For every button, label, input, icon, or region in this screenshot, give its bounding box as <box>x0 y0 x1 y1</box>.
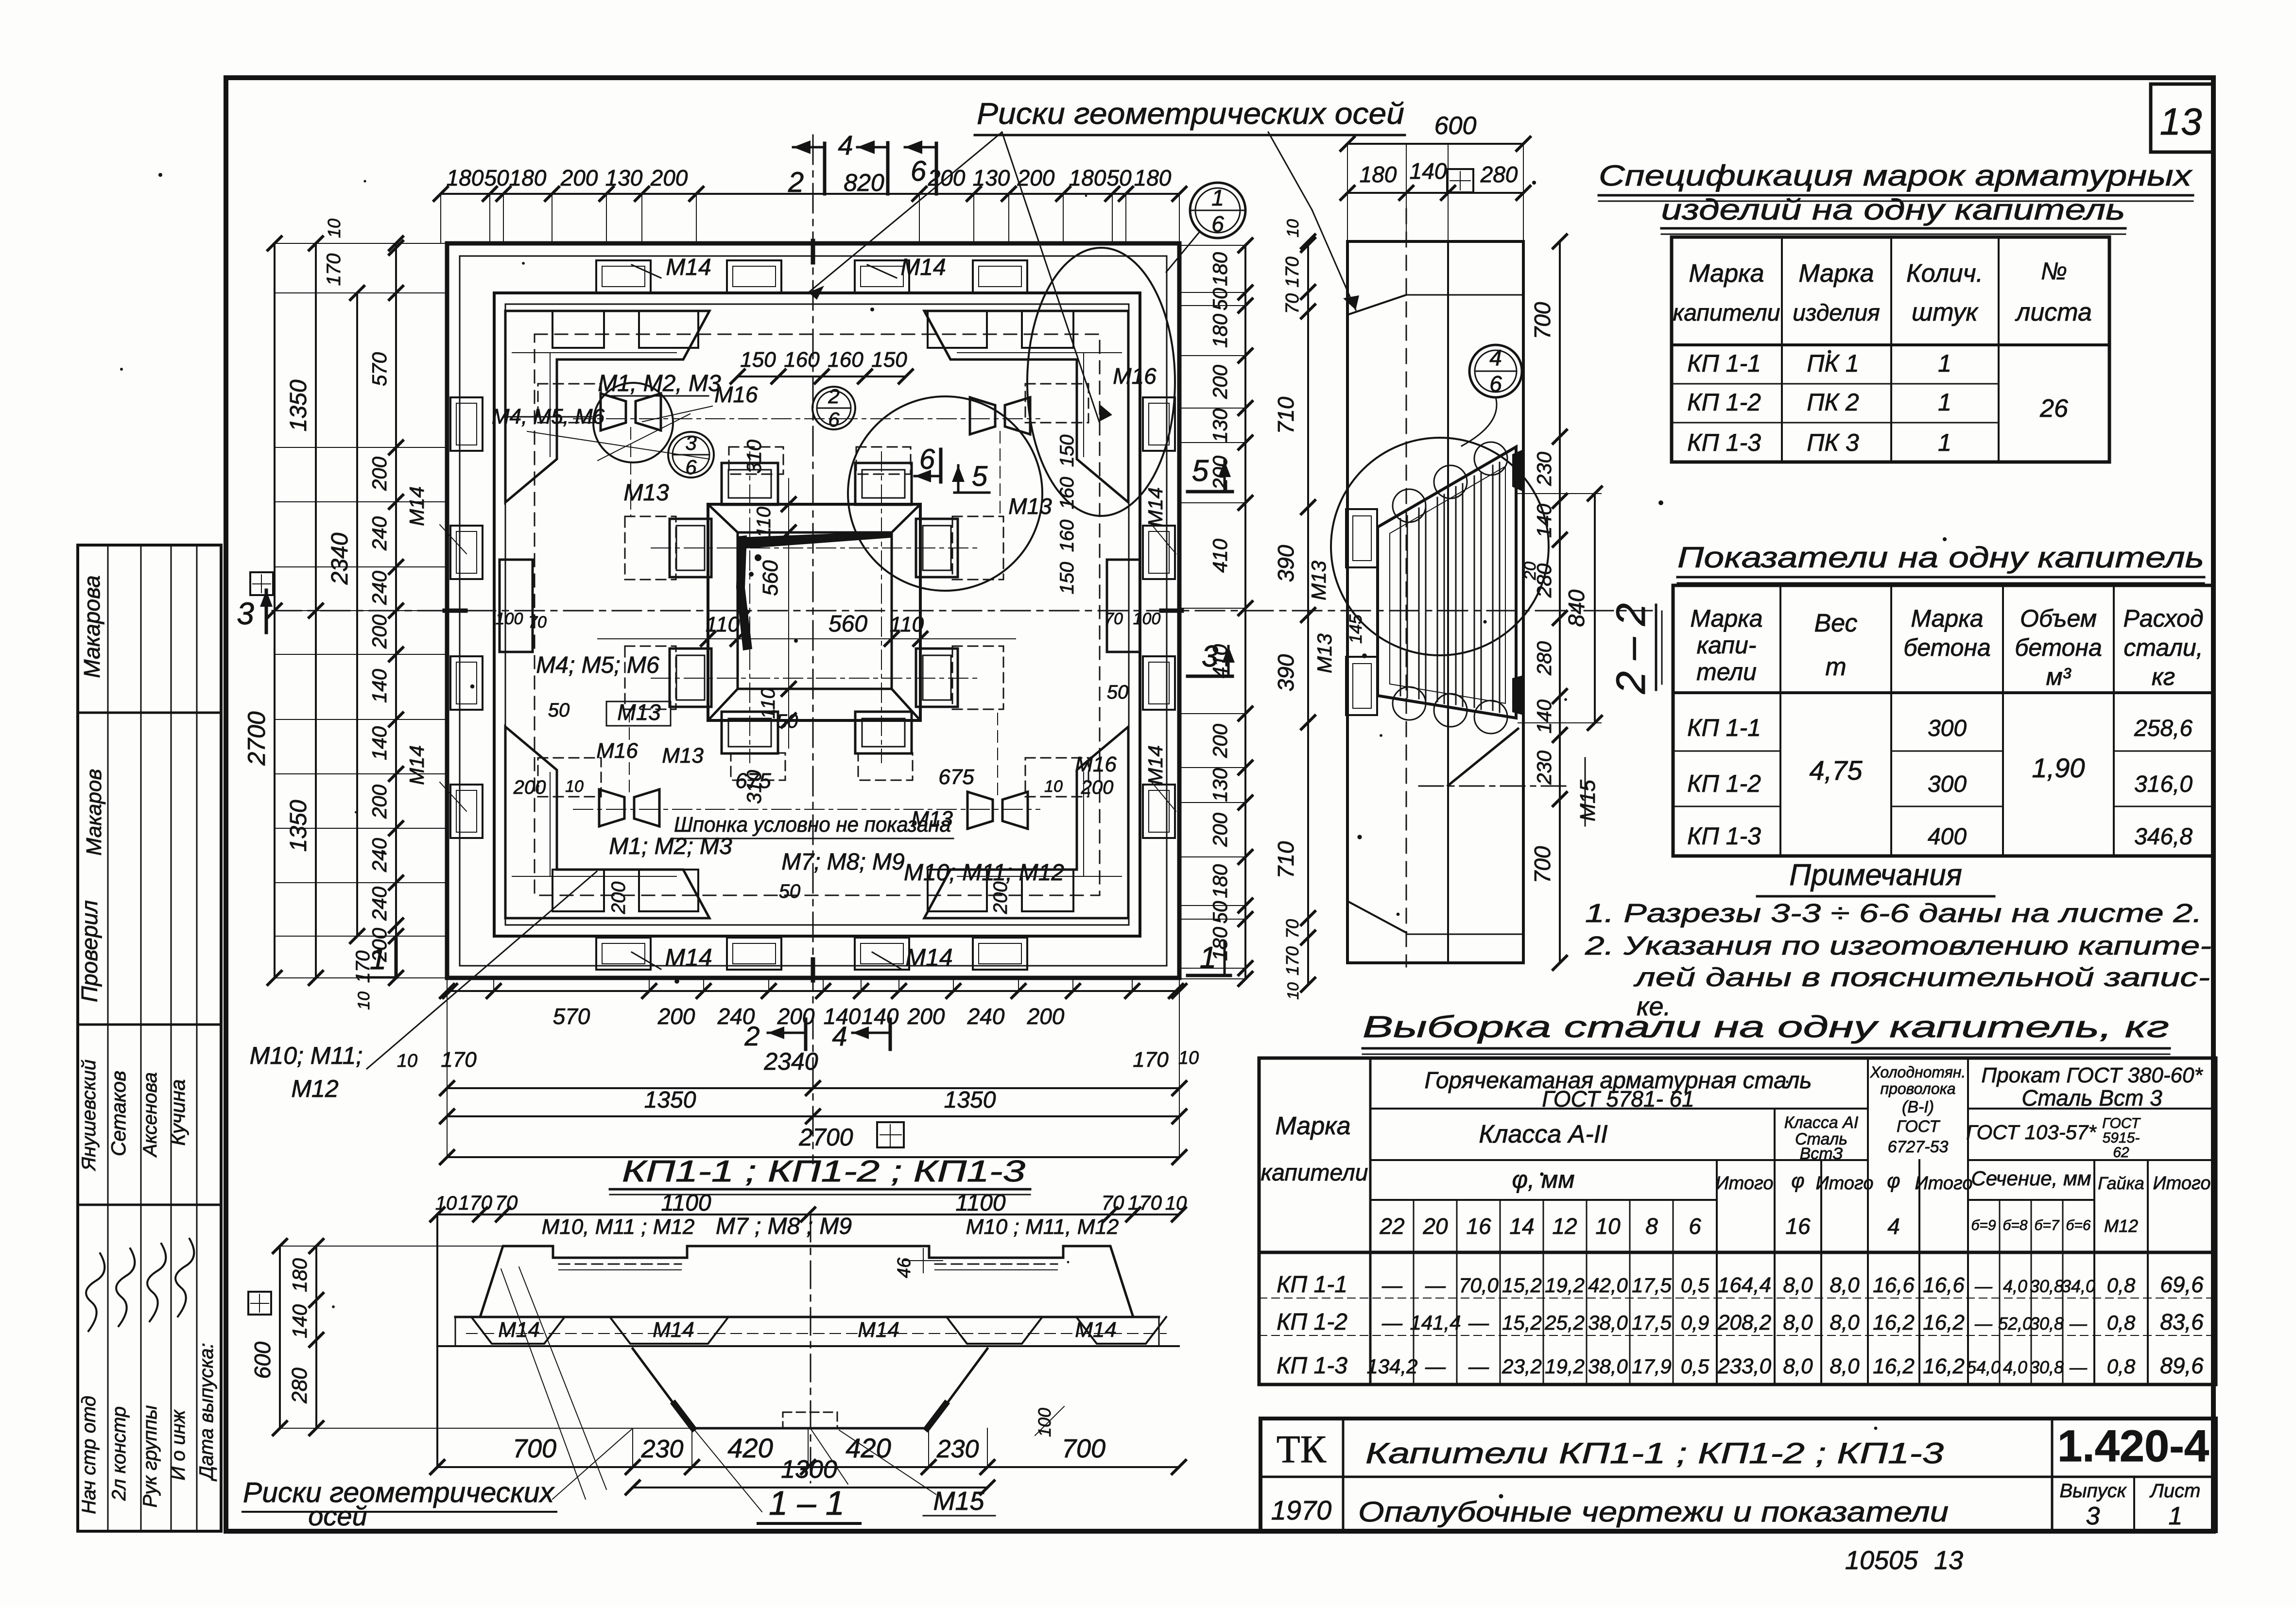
svg-text:КП 1-3: КП 1-3 <box>1687 822 1761 850</box>
svg-text:б=6: б=6 <box>2066 1217 2090 1233</box>
svg-text:200: 200 <box>1208 364 1231 399</box>
svg-text:150: 150 <box>871 348 907 372</box>
svg-text:1: 1 <box>1200 941 1216 974</box>
svg-text:200: 200 <box>1081 777 1114 798</box>
svg-text:Итого: Итого <box>1915 1173 1973 1194</box>
svg-text:1 – 1: 1 – 1 <box>769 1484 845 1522</box>
svg-text:2340: 2340 <box>327 532 353 585</box>
svg-text:Выборка стали на одну капи: Выборка стали на одну капитель, кг <box>1363 1010 2169 1044</box>
svg-text:10: 10 <box>1284 982 1302 1000</box>
M13 keys around column <box>722 463 778 505</box>
svg-text:штук: штук <box>1912 298 1979 326</box>
svg-text:0,8: 0,8 <box>2107 1355 2136 1378</box>
extension verticals from top chain <box>440 194 441 243</box>
svg-text:М13: М13 <box>1313 633 1336 673</box>
svg-text:М14: М14 <box>900 255 946 280</box>
svg-text:Гайка: Гайка <box>2098 1173 2144 1193</box>
svg-text:230: 230 <box>641 1435 684 1463</box>
extension horizontals left <box>275 243 447 244</box>
svg-text:26: 26 <box>2039 394 2068 423</box>
svg-text:1: 1 <box>1211 185 1224 210</box>
svg-text:62: 62 <box>2113 1145 2129 1161</box>
svg-text:390: 390 <box>1273 545 1298 582</box>
svg-text:10: 10 <box>1044 777 1063 796</box>
central column frustum <box>708 504 920 720</box>
svg-text:50: 50 <box>548 700 570 721</box>
svg-text:10: 10 <box>1165 1193 1187 1214</box>
svg-text:2: 2 <box>788 167 804 198</box>
svg-text:Объем: Объем <box>2020 605 2097 632</box>
svg-text:М10, М11 ; М12: М10, М11 ; М12 <box>542 1215 695 1239</box>
mid-side plates <box>500 560 533 652</box>
svg-text:Макарова: Макарова <box>79 575 104 678</box>
svg-text:М14: М14 <box>665 944 712 971</box>
svg-text:180: 180 <box>1208 313 1231 348</box>
svg-text:капи-: капи- <box>1697 632 1757 659</box>
svg-text:Класса АI: Класса АI <box>1784 1113 1859 1132</box>
svg-text:Примечания: Примечания <box>1789 858 1962 892</box>
svg-text:820: 820 <box>844 169 884 196</box>
svg-text:—: — <box>1425 1274 1446 1297</box>
svg-text:2: 2 <box>828 385 839 408</box>
svg-text:70: 70 <box>1282 919 1302 939</box>
svg-text:110: 110 <box>890 613 924 636</box>
svg-text:1100: 1100 <box>955 1190 1006 1216</box>
svg-text:1. Разрезы 3-3 ÷ 6-6 даны на: 1. Разрезы 3-3 ÷ 6-6 даны на листе 2. <box>1585 899 2202 928</box>
svg-text:М1; М2; М3: М1; М2; М3 <box>609 834 732 859</box>
svg-text:М14: М14 <box>405 745 428 785</box>
svg-text:280: 280 <box>1480 162 1518 187</box>
svg-text:300: 300 <box>1928 716 1967 741</box>
svg-text:8,0: 8,0 <box>1830 1311 1860 1334</box>
svg-text:0,9: 0,9 <box>1681 1311 1709 1334</box>
svg-text:200: 200 <box>1017 165 1055 190</box>
svg-text:2л констр: 2л констр <box>108 1406 130 1501</box>
svg-text:5: 5 <box>972 461 988 492</box>
svg-text:141,4: 141,4 <box>1410 1311 1461 1334</box>
svg-text:390: 390 <box>1273 654 1298 691</box>
svg-text:16: 16 <box>1785 1214 1811 1239</box>
svg-text:150: 150 <box>1056 562 1078 595</box>
svg-text:М14: М14 <box>858 1318 899 1342</box>
svg-text:Лист: Лист <box>2149 1480 2201 1502</box>
svg-text:—: — <box>1381 1274 1403 1297</box>
svg-text:180: 180 <box>447 165 484 190</box>
svg-text:130: 130 <box>973 165 1010 190</box>
svg-text:840: 840 <box>1564 589 1589 627</box>
svg-text:200: 200 <box>560 165 598 190</box>
svg-text:410: 410 <box>1208 538 1231 573</box>
svg-text:70,0: 70,0 <box>1459 1274 1499 1297</box>
svg-text:М16: М16 <box>1075 752 1117 776</box>
840 dim <box>1594 494 1596 723</box>
svg-text:1100: 1100 <box>661 1190 711 1216</box>
svg-text:т: т <box>1825 653 1846 681</box>
section 2-2 column verticals <box>1346 241 1349 963</box>
svg-text:17,5: 17,5 <box>1632 1311 1672 1334</box>
svg-text:1300: 1300 <box>781 1455 837 1484</box>
svg-text:10: 10 <box>397 1051 417 1071</box>
svg-text:170: 170 <box>323 254 345 286</box>
svg-text:М13: М13 <box>617 700 661 725</box>
svg-text:140: 140 <box>1410 158 1447 184</box>
svg-text:180: 180 <box>1208 864 1231 898</box>
leader lines from top label <box>809 132 1002 292</box>
svg-text:4: 4 <box>838 130 853 160</box>
svg-text:5915-: 5915- <box>2103 1130 2140 1146</box>
section top slab <box>1347 240 1523 243</box>
table D horizontals <box>1370 1108 1868 1110</box>
section left chain <box>1307 241 1309 985</box>
svg-text:20: 20 <box>1521 562 1539 581</box>
svg-text:180: 180 <box>509 165 547 190</box>
svg-text:4: 4 <box>1887 1214 1900 1239</box>
svg-text:капители: капители <box>1261 1160 1368 1186</box>
svg-text:Риски геометрических: Риски геометрических <box>243 1477 555 1508</box>
svg-text:50: 50 <box>1208 901 1231 923</box>
svg-text:М13: М13 <box>1008 494 1052 519</box>
svg-text:М12: М12 <box>2104 1216 2138 1236</box>
M14 edge plates left/right bands <box>450 397 483 451</box>
page number box 13 <box>2151 84 2213 152</box>
svg-text:13: 13 <box>1934 1546 1963 1575</box>
plan centerlines <box>272 610 1652 612</box>
svg-text:12: 12 <box>1552 1214 1577 1239</box>
svg-text:50: 50 <box>1208 288 1231 310</box>
svg-text:КП 1-3: КП 1-3 <box>1277 1353 1347 1379</box>
svg-text:кг: кг <box>2152 663 2175 690</box>
svg-text:6: 6 <box>1689 1214 1701 1239</box>
svg-text:б=8: б=8 <box>2003 1217 2027 1233</box>
svg-text:КП1-1 ; КП1-2 ; КП1-3: КП1-1 ; КП1-2 ; КП1-3 <box>622 1155 1025 1188</box>
svg-text:1: 1 <box>1938 389 1951 416</box>
M14 dovetails <box>471 1317 565 1344</box>
svg-text:Проверил: Проверил <box>77 900 102 1002</box>
svg-text:400: 400 <box>1928 824 1967 850</box>
svg-text:420: 420 <box>727 1433 773 1463</box>
svg-text:134,2: 134,2 <box>1366 1355 1417 1378</box>
lower trapezoid <box>633 1349 987 1428</box>
svg-text:тели: тели <box>1696 658 1757 685</box>
svg-text:140: 140 <box>1533 699 1555 734</box>
svg-text:1: 1 <box>1938 350 1951 377</box>
svg-text:лей даны в пояснительной з: лей даны в пояснительной запис- <box>1633 963 2210 992</box>
svg-text:14: 14 <box>1509 1214 1534 1239</box>
svg-text:Капители КП1-1 ; КП1-2 ; КП1: Капители КП1-1 ; КП1-2 ; КП1-3 <box>1365 1437 1944 1470</box>
svg-text:83,6: 83,6 <box>2160 1309 2204 1334</box>
svg-text:Янушевский: Янушевский <box>78 1060 100 1171</box>
svg-text:8,0: 8,0 <box>1783 1354 1813 1378</box>
svg-text:69,6: 69,6 <box>2160 1272 2204 1297</box>
svg-text:19,2: 19,2 <box>1545 1355 1585 1378</box>
svg-text:180: 180 <box>1360 162 1397 187</box>
svg-text:3: 3 <box>1202 640 1218 673</box>
key axes dash-dot <box>749 452 750 763</box>
svg-text:б=7: б=7 <box>2034 1217 2059 1233</box>
svg-text:1350: 1350 <box>286 800 311 852</box>
table B grid <box>1673 585 2213 856</box>
elevation bottom chain <box>436 1214 438 1467</box>
svg-text:10: 10 <box>1284 219 1302 238</box>
svg-text:140: 140 <box>288 1304 311 1338</box>
svg-text:16,6: 16,6 <box>1923 1273 1965 1297</box>
svg-text:КП 1-2: КП 1-2 <box>1277 1309 1347 1335</box>
svg-text:—: — <box>1381 1311 1403 1334</box>
svg-text:КП 1-1: КП 1-1 <box>1687 714 1761 741</box>
svg-text:38,0: 38,0 <box>1588 1311 1628 1334</box>
svg-text:3: 3 <box>237 596 254 631</box>
svg-text:16,2: 16,2 <box>1873 1354 1915 1378</box>
svg-text:2: 2 <box>744 1021 760 1051</box>
svg-text:16,6: 16,6 <box>1873 1273 1915 1297</box>
svg-text:70: 70 <box>1282 293 1303 314</box>
svg-text:17,9: 17,9 <box>1632 1355 1672 1378</box>
svg-text:—: — <box>1468 1355 1489 1378</box>
svg-text:2700: 2700 <box>243 711 270 766</box>
svg-text:М16: М16 <box>1113 363 1157 389</box>
svg-text:М16: М16 <box>714 382 758 407</box>
svg-text:ТК: ТК <box>1277 1428 1327 1471</box>
circle 4/6 <box>1469 345 1522 397</box>
svg-text:160: 160 <box>828 348 863 372</box>
svg-text:19,2: 19,2 <box>1545 1274 1585 1297</box>
svg-text:М7; М8; М9: М7; М8; М9 <box>781 849 904 875</box>
svg-text:8,0: 8,0 <box>1830 1273 1860 1297</box>
svg-text:Кучина: Кучина <box>166 1079 189 1146</box>
svg-text:изделия: изделия <box>1793 300 1880 326</box>
svg-text:Класса А-II: Класса А-II <box>1479 1120 1607 1148</box>
left chains <box>274 243 276 978</box>
svg-text:10: 10 <box>355 992 373 1010</box>
svg-text:150: 150 <box>740 348 776 372</box>
sheet frame <box>226 78 2213 1531</box>
svg-text:бетона: бетона <box>2015 634 2102 661</box>
svg-text:М15: М15 <box>933 1487 984 1516</box>
svg-text:КП 1-2: КП 1-2 <box>1687 770 1761 797</box>
svg-text:240: 240 <box>368 516 391 551</box>
svg-text:Итого: Итого <box>1816 1173 1874 1194</box>
svg-text:10: 10 <box>324 219 344 238</box>
svg-text:10: 10 <box>565 777 584 796</box>
svg-text:М14: М14 <box>653 1318 694 1342</box>
elevation body profile <box>455 1246 1159 1317</box>
svg-text:ПК 1: ПК 1 <box>1807 350 1859 377</box>
svg-text:164,4: 164,4 <box>1718 1273 1771 1297</box>
svg-text:710: 710 <box>1273 841 1298 878</box>
svg-text:170: 170 <box>458 1191 493 1214</box>
svg-text:капители: капители <box>1673 300 1780 326</box>
svg-text:Сталь Вст 3: Сталь Вст 3 <box>2021 1085 2162 1111</box>
svg-text:600: 600 <box>250 1341 275 1379</box>
svg-text:200: 200 <box>1208 723 1231 758</box>
M16 bowties <box>601 393 626 430</box>
scan speckles <box>870 308 874 311</box>
section bottom foot <box>1448 729 1518 786</box>
svg-text:М12: М12 <box>291 1075 338 1102</box>
svg-text:50: 50 <box>484 165 509 190</box>
svg-text:208,2: 208,2 <box>1717 1311 1771 1334</box>
elevation left dims <box>315 1246 317 1428</box>
svg-text:Холоднотян.: Холоднотян. <box>1870 1063 1966 1081</box>
svg-text:16: 16 <box>1466 1214 1491 1239</box>
svg-text:258,6: 258,6 <box>2134 716 2192 741</box>
svg-text:140: 140 <box>1533 503 1555 538</box>
svg-text:110: 110 <box>758 688 779 719</box>
svg-text:М14: М14 <box>405 486 428 526</box>
svg-text:4,0: 4,0 <box>2003 1276 2027 1296</box>
svg-text:200: 200 <box>928 165 966 190</box>
svg-text:листа: листа <box>2015 298 2092 326</box>
table D verticals <box>1369 1058 1372 1385</box>
svg-text:38,0: 38,0 <box>1588 1355 1628 1378</box>
circle 1/6 top right <box>1190 183 1245 238</box>
svg-text:25,2: 25,2 <box>1544 1311 1585 1334</box>
svg-text:осей: осей <box>308 1501 367 1531</box>
svg-text:50: 50 <box>1106 165 1132 190</box>
svg-text:Сечение, мм: Сечение, мм <box>1971 1167 2091 1190</box>
right chains <box>1244 245 1246 979</box>
svg-text:180: 180 <box>1208 252 1231 286</box>
svg-text:180: 180 <box>1134 165 1172 190</box>
svg-text:М14: М14 <box>1144 745 1167 785</box>
svg-text:42,0: 42,0 <box>1588 1274 1628 1297</box>
svg-text:16,2: 16,2 <box>1873 1311 1915 1334</box>
svg-text:110: 110 <box>706 613 740 636</box>
svg-text:89,6: 89,6 <box>2160 1353 2204 1378</box>
svg-text:1,90: 1,90 <box>2032 752 2085 783</box>
svg-text:—: — <box>2069 1357 2088 1377</box>
table D outer <box>1259 1058 2216 1385</box>
svg-text:420: 420 <box>846 1433 891 1463</box>
svg-text:170: 170 <box>1282 946 1302 975</box>
shponka black wedge <box>740 531 891 549</box>
plan inner square (double) <box>494 293 1140 936</box>
svg-text:16,2: 16,2 <box>1923 1311 1965 1334</box>
svg-text:180: 180 <box>288 1258 311 1292</box>
svg-text:М1, М2, М3: М1, М2, М3 <box>598 371 721 396</box>
svg-text:10505: 10505 <box>1845 1546 1918 1575</box>
svg-text:6: 6 <box>911 155 927 187</box>
svg-text:16,2: 16,2 <box>1923 1354 1965 1378</box>
svg-text:Дата выпуска:: Дата выпуска: <box>196 1343 217 1481</box>
plan dashed square <box>535 334 1100 895</box>
svg-text:20: 20 <box>1422 1214 1448 1239</box>
svg-text:Марка: Марка <box>1275 1112 1350 1140</box>
svg-text:φ: φ <box>1887 1169 1900 1192</box>
bottom chains <box>447 990 1179 992</box>
svg-text:8,0: 8,0 <box>1783 1311 1813 1334</box>
svg-text:0,8: 0,8 <box>2107 1274 2136 1297</box>
boxed mark left <box>250 572 273 595</box>
svg-text:—: — <box>1974 1314 1993 1333</box>
svg-text:6: 6 <box>1489 371 1502 396</box>
svg-text:130: 130 <box>1208 768 1231 802</box>
svg-text:140: 140 <box>862 1004 899 1029</box>
svg-text:6: 6 <box>828 408 840 431</box>
table A grid <box>1672 237 2109 462</box>
svg-text:240: 240 <box>368 886 391 921</box>
svg-text:2340: 2340 <box>763 1048 818 1075</box>
svg-text:560: 560 <box>829 611 867 637</box>
svg-text:(В-I): (В-I) <box>1902 1098 1934 1116</box>
svg-text:Сетаков: Сетаков <box>107 1071 130 1156</box>
M14 edge plates top/bottom bands <box>596 260 651 292</box>
section big detail circle <box>1331 438 1549 655</box>
svg-text:700: 700 <box>1530 846 1555 883</box>
svg-text:КП 1-2: КП 1-2 <box>1687 389 1761 416</box>
svg-text:570: 570 <box>553 1004 590 1029</box>
svg-text:240: 240 <box>368 570 391 605</box>
svg-text:Аксенова: Аксенова <box>139 1072 161 1158</box>
svg-text:240: 240 <box>967 1004 1005 1029</box>
svg-text:Спецификация марок арматурных: Спецификация марок арматурных <box>1599 159 2192 192</box>
svg-text:4,75: 4,75 <box>1810 755 1863 786</box>
svg-text:160: 160 <box>1056 477 1078 510</box>
svg-text:ПК 2: ПК 2 <box>1807 389 1859 416</box>
svg-text:Прокат ГОСТ 380-60*: Прокат ГОСТ 380-60* <box>1981 1063 2203 1087</box>
svg-text:Марка: Марка <box>1798 259 1874 288</box>
svg-text:145: 145 <box>1346 614 1365 644</box>
svg-text:6: 6 <box>1211 211 1224 237</box>
svg-text:710: 710 <box>1273 396 1298 434</box>
svg-text:140: 140 <box>368 668 391 703</box>
title block <box>1260 1419 2216 1531</box>
svg-text:ГОСТ: ГОСТ <box>1897 1117 1940 1136</box>
svg-text:—: — <box>1425 1355 1446 1378</box>
section top dims <box>1347 143 1523 145</box>
section bottom slab <box>1347 901 1406 933</box>
svg-text:б=9: б=9 <box>1971 1217 1996 1233</box>
svg-text:30,8: 30,8 <box>2030 1276 2064 1296</box>
svg-text:54,0: 54,0 <box>1967 1357 2001 1377</box>
corner angle plates <box>505 311 709 502</box>
svg-text:23,2: 23,2 <box>1502 1355 1542 1378</box>
svg-text:4: 4 <box>832 1021 847 1051</box>
svg-text:Нач стр отд: Нач стр отд <box>78 1396 100 1514</box>
svg-text:φ, мм: φ, мм <box>1512 1166 1575 1193</box>
svg-text:изделий на одну капитель: изделий на одну капитель <box>1661 193 2125 226</box>
svg-text:200: 200 <box>1027 1004 1065 1029</box>
svg-text:—: — <box>2069 1314 2088 1333</box>
svg-text:М14: М14 <box>1075 1318 1117 1342</box>
svg-text:М4; М5; М6: М4; М5; М6 <box>536 652 659 678</box>
svg-text:2 – 2: 2 – 2 <box>1608 603 1654 695</box>
svg-text:м³: м³ <box>2046 663 2072 690</box>
svg-text:ГОСТ 5781- 61: ГОСТ 5781- 61 <box>1542 1086 1694 1111</box>
svg-text:1: 1 <box>2169 1502 2183 1530</box>
svg-text:17,5: 17,5 <box>1632 1274 1672 1297</box>
svg-text:700: 700 <box>1062 1434 1105 1463</box>
svg-text:160: 160 <box>784 348 820 372</box>
scallops <box>1393 489 1426 522</box>
svg-text:200: 200 <box>990 882 1011 915</box>
svg-text:240: 240 <box>368 838 391 872</box>
svg-text:15,2: 15,2 <box>1502 1311 1542 1334</box>
svg-text:200: 200 <box>368 784 391 819</box>
M13 side keys of section <box>1346 509 1377 567</box>
svg-text:130: 130 <box>1208 408 1231 443</box>
svg-text:№: № <box>2041 257 2067 285</box>
svg-text:М14: М14 <box>905 944 952 971</box>
svg-text:ГОСТ: ГОСТ <box>2102 1115 2141 1131</box>
svg-text:280: 280 <box>1533 641 1555 676</box>
svg-text:310: 310 <box>742 439 765 474</box>
svg-text:300: 300 <box>1928 771 1967 797</box>
svg-text:1350: 1350 <box>644 1087 696 1113</box>
svg-text:ПК 3: ПК 3 <box>1807 429 1859 456</box>
svg-text:10: 10 <box>1595 1214 1621 1239</box>
svg-text:110: 110 <box>753 507 775 538</box>
